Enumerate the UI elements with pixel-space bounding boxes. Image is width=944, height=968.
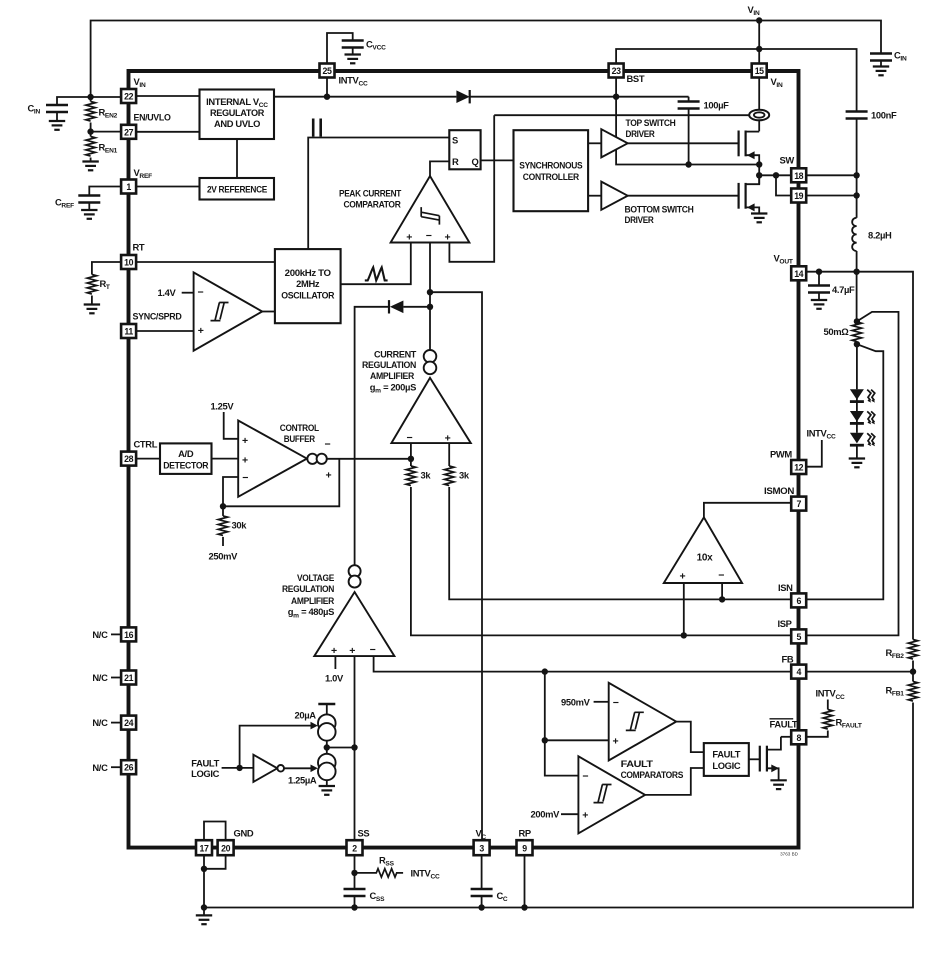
wire pin4 to divider — [806, 671, 913, 673]
svg-text:GND: GND — [234, 828, 254, 839]
wire pin25 to CVCC — [327, 33, 353, 64]
svg-text:AMPLIFIER: AMPLIFIER — [370, 370, 415, 381]
svg-text:+: + — [326, 470, 332, 482]
pin 1 VREF — [121, 180, 136, 194]
wire 3k left down to ISP — [411, 487, 791, 635]
svg-text:REGULATION: REGULATION — [282, 583, 335, 594]
svg-text:2: 2 — [352, 844, 357, 854]
ground 1.25uA — [319, 786, 335, 795]
wire SW to pin 19 — [776, 175, 791, 195]
ramp glyph — [365, 267, 388, 280]
node current sources SS — [324, 744, 330, 750]
ground RT — [84, 305, 100, 314]
wire led2-led3 — [856, 411, 858, 433]
current source current amp output — [424, 350, 437, 363]
wire 10x plus to ISP — [683, 583, 685, 635]
pin 8 FAULT — [791, 730, 806, 744]
wire ground rail — [204, 703, 913, 908]
op-amp 10x amplifier — [664, 517, 742, 583]
svg-text:COMPARATOR: COMPARATOR — [344, 199, 402, 210]
svg-text:21: 21 — [124, 673, 133, 683]
svg-text:5: 5 — [796, 632, 801, 642]
svg-text:CURRENT: CURRENT — [374, 349, 417, 360]
wire FB down to comparators — [545, 672, 579, 776]
wire 200mV to comp2 plus — [561, 813, 578, 815]
svg-text:AND UVLO: AND UVLO — [214, 118, 260, 129]
wire top driver to gate — [628, 142, 739, 144]
node FB divider — [910, 668, 916, 674]
svg-text:14: 14 — [794, 269, 803, 279]
svg-text:ISP: ISP — [778, 618, 792, 629]
svg-text:30k: 30k — [232, 520, 248, 531]
svg-text:4.7µF: 4.7µF — [832, 284, 855, 295]
wire pin22 to regulator — [136, 95, 199, 97]
wire N/C pin24 — [111, 722, 121, 724]
wire kelvin top to ISP — [806, 312, 898, 636]
wire 1.4V to sync comparator — [182, 292, 194, 294]
pin 10 RT — [121, 255, 136, 269]
transistor Q3 fault open-drain — [760, 737, 781, 780]
wire pin15 down to sense — [758, 78, 760, 110]
svg-text:23: 23 — [612, 66, 621, 76]
wire driver rail to sense — [494, 114, 749, 116]
pin 9 RP — [517, 840, 533, 855]
svg-text:11: 11 — [124, 327, 133, 337]
svg-text:15: 15 — [755, 66, 764, 76]
pin 24 N/C — [121, 716, 136, 730]
capacitor CREF — [78, 196, 100, 203]
node clamp diode junction — [427, 304, 433, 310]
wire oscillator to S input — [308, 138, 449, 250]
svg-text:100nF: 100nF — [871, 110, 897, 121]
node REN divider — [87, 128, 93, 134]
svg-text:12: 12 — [794, 463, 803, 473]
node VOUT inductor — [853, 269, 859, 275]
pin 3 VC — [474, 840, 490, 855]
supply tick 20uA — [326, 705, 328, 715]
op-amp fault comparator 2 — [578, 756, 645, 833]
pin 26 N/C — [121, 760, 136, 774]
svg-text:20µA: 20µA — [295, 710, 317, 721]
svg-text:1.25µA: 1.25µA — [288, 775, 317, 786]
svg-text:17: 17 — [200, 844, 209, 854]
resistor 30k — [222, 506, 224, 516]
wire VOUT line — [806, 272, 913, 640]
svg-text:27: 27 — [124, 127, 133, 137]
node RP ground — [521, 904, 527, 910]
wire controller to bottom driver — [588, 195, 601, 197]
wire N/C pin21 — [111, 677, 121, 679]
svg-text:ISMON: ISMON — [764, 485, 795, 496]
svg-text:FAULT: FAULT — [621, 758, 654, 769]
pin 12 PWM — [791, 460, 806, 474]
wire pin19 to SW rail — [806, 195, 856, 197]
ground CREF — [81, 210, 97, 219]
wire pin11 to sync comparator — [136, 330, 194, 332]
wire current amp minus to 3k — [410, 443, 412, 466]
wire pin10 to RT — [92, 262, 121, 275]
svg-text:A/D: A/D — [178, 448, 194, 459]
pin 7 ISMON — [791, 497, 806, 511]
IC boundary LT3763 — [129, 71, 799, 848]
block A/D detector — [160, 443, 212, 474]
svg-text:SYNCHRONOUS: SYNCHRONOUS — [519, 159, 582, 170]
ground CIN left — [49, 121, 65, 130]
svg-text:SW: SW — [780, 155, 795, 166]
pin 11 SYNC/SPRD — [121, 324, 136, 338]
wire 3k right down to ISN — [449, 487, 791, 599]
svg-text:BOTTOM SWITCH: BOTTOM SWITCH — [625, 203, 695, 214]
hysteresis glyph comp1 — [626, 712, 644, 730]
svg-text:50mΩ: 50mΩ — [824, 326, 850, 337]
svg-text:8.2µH: 8.2µH — [868, 230, 892, 241]
capacitor CVCC — [342, 41, 364, 48]
wire pin25 down to regulator output — [326, 78, 328, 97]
pin 20 GND — [218, 840, 234, 855]
wire N/C pin16 — [111, 633, 121, 635]
svg-text:1: 1 — [126, 182, 131, 192]
buffer bottom switch driver — [601, 182, 627, 210]
svg-text:2MHz: 2MHz — [296, 278, 320, 289]
svg-text:S: S — [452, 134, 458, 145]
wire pin12 INTVCC stub — [806, 440, 822, 467]
svg-text:VOLTAGE: VOLTAGE — [297, 572, 334, 583]
svg-text:PEAK CURRENT: PEAK CURRENT — [339, 188, 402, 199]
svg-text:16: 16 — [124, 630, 133, 640]
svg-text:LOGIC: LOGIC — [191, 768, 220, 779]
node fault comp1 plus — [542, 737, 548, 743]
wire pin8 to RFAULT — [806, 731, 828, 737]
svg-text:DETECTOR: DETECTOR — [163, 460, 209, 471]
wire led3 to ground — [856, 445, 858, 458]
svg-text:20: 20 — [221, 844, 230, 854]
wire pin27 to regulator — [136, 131, 199, 133]
svg-text:28: 28 — [124, 454, 133, 464]
svg-text:+: + — [613, 736, 619, 748]
svg-text:+: + — [242, 435, 248, 447]
wire voltage amp minus to FB — [374, 656, 792, 672]
current source voltage amp output — [349, 565, 361, 577]
svg-text:BST: BST — [627, 73, 645, 84]
svg-text:+: + — [680, 571, 686, 583]
svg-text:CONTROL: CONTROL — [280, 422, 320, 433]
current source 20uA — [318, 714, 336, 732]
wire Q to controller — [481, 159, 514, 161]
resistor RFB2 — [908, 640, 917, 660]
svg-text:22: 22 — [124, 92, 133, 102]
svg-text:6: 6 — [796, 596, 801, 606]
wire SW rail down — [856, 119, 858, 218]
pin 6 ISN — [791, 593, 806, 607]
node 10x plus ISP — [681, 632, 687, 638]
capacitor CC — [471, 889, 493, 896]
node INTVCC — [324, 94, 330, 100]
bracket GND pins 17-20 — [204, 822, 226, 841]
wire BST pin down and across to SW — [616, 78, 759, 165]
pin 23 BST — [609, 64, 624, 78]
resistor 3k left — [406, 466, 415, 486]
node SS line tap — [351, 744, 357, 750]
wire VC to pin 3 — [430, 292, 482, 840]
svg-text:R: R — [452, 156, 459, 167]
wire pin18 to SW rail — [806, 174, 856, 176]
node fault logic branch — [236, 765, 242, 771]
wire buffer output to current amp — [327, 458, 411, 460]
svg-text:1.0V: 1.0V — [325, 673, 344, 684]
wire buffer feedback loop — [223, 459, 339, 507]
pin 21 N/C — [121, 671, 136, 685]
block internal VCC regulator — [200, 90, 275, 140]
wire regulator to diode — [274, 96, 456, 98]
svg-text:−: − — [718, 569, 724, 581]
svg-text:19: 19 — [794, 191, 803, 201]
node SW pin19 branch — [773, 172, 779, 178]
wire 10x minus to ISN — [721, 583, 723, 599]
transistor Q1 top switch — [739, 131, 760, 165]
op-amp voltage regulation amplifier — [314, 592, 394, 656]
resistor REN2 — [90, 97, 92, 102]
pin 27 EN/UVLO — [121, 125, 136, 139]
svg-text:950mV: 950mV — [561, 696, 591, 707]
current source 1.25uA — [318, 754, 336, 772]
node comparator VC junction — [427, 289, 433, 295]
wire node to pin 22 — [91, 96, 122, 98]
wire comp1 output to fault logic — [676, 722, 704, 753]
svg-text:N/C: N/C — [92, 762, 108, 773]
wire to comp1 plus — [545, 739, 609, 741]
svg-text:3: 3 — [479, 844, 484, 854]
ground bottom FET source — [751, 214, 767, 223]
svg-text:+: + — [198, 325, 204, 337]
pin 5 ISP — [791, 629, 806, 643]
capacitor CSS — [344, 889, 366, 896]
svg-text:−: − — [198, 287, 204, 299]
current source control buffer output — [307, 454, 317, 464]
wire pin1 to reference — [136, 186, 199, 188]
svg-text:10x: 10x — [697, 553, 713, 564]
svg-text:200mV: 200mV — [531, 809, 561, 820]
node gnd pins join — [201, 866, 207, 872]
svg-text:N/C: N/C — [92, 717, 108, 728]
svg-text:25: 25 — [323, 66, 332, 76]
svg-text:Q: Q — [472, 156, 479, 167]
capacitor CIN right — [870, 54, 892, 61]
wire sense to LED string — [856, 344, 858, 389]
svg-text:2V REFERENCE: 2V REFERENCE — [207, 183, 267, 194]
wire 950mV to comp1 minus — [594, 701, 609, 703]
op-amp peak current comparator — [391, 176, 470, 243]
node SW rail 19 — [853, 192, 859, 198]
wire regulator to reference — [236, 139, 238, 178]
capacitor CIN (left) — [46, 105, 68, 112]
hysteresis glyph sync — [211, 303, 229, 321]
svg-text:+: + — [582, 809, 588, 821]
pin 18 SW — [791, 168, 806, 182]
capacitor 100uF bootstrap — [688, 97, 690, 102]
resistor RFAULT — [823, 710, 832, 730]
pin 4 FB — [791, 665, 806, 679]
node 10x minus ISN — [719, 596, 725, 602]
wire oscillator ramp to comparator — [341, 243, 411, 285]
svg-text:OSCILLATOR: OSCILLATOR — [281, 290, 335, 301]
wire SW vertical — [758, 165, 760, 185]
svg-text:LOGIC: LOGIC — [712, 760, 741, 771]
svg-text:8: 8 — [796, 733, 801, 743]
svg-text:PWM: PWM — [770, 449, 792, 460]
block oscillator — [275, 249, 341, 323]
buffer top switch driver — [601, 129, 627, 157]
svg-text:CTRL: CTRL — [134, 438, 158, 449]
resistor 3k right — [445, 466, 454, 486]
svg-text:+: + — [349, 645, 355, 657]
svg-text:TOP SWITCH: TOP SWITCH — [626, 117, 677, 128]
svg-text:−: − — [325, 439, 331, 451]
wire 1.0V stub — [334, 656, 336, 669]
svg-text:SYNC/SPRD: SYNC/SPRD — [133, 311, 183, 322]
svg-text:−: − — [426, 230, 432, 242]
wire VIN top rail — [91, 21, 881, 98]
hysteresis glyph comp2 — [594, 785, 612, 803]
wire sync comparator to oscillator — [262, 311, 275, 313]
svg-text:250mV: 250mV — [209, 551, 239, 562]
pin 16 N/C — [121, 627, 136, 641]
svg-text:3763 BD: 3763 BD — [780, 852, 799, 857]
wire pin17 to ground — [203, 855, 205, 907]
LED D2 — [850, 411, 875, 424]
svg-text:COMPARATORS: COMPARATORS — [621, 769, 684, 780]
svg-text:7: 7 — [796, 499, 801, 509]
svg-text:+: + — [242, 455, 248, 467]
node BST cap line crossing VIN — [756, 46, 762, 52]
svg-text:+: + — [331, 645, 337, 657]
op-amp sync comparator — [194, 272, 263, 350]
wire kelvin bottom to ISN — [806, 344, 883, 599]
svg-text:18: 18 — [794, 171, 803, 181]
node VIN rail / pin15 junction — [756, 17, 762, 23]
wire clamp diode to voltage amp — [355, 307, 389, 565]
node buffer output to 3k — [408, 456, 414, 462]
svg-text:FAULT: FAULT — [191, 758, 219, 769]
wire pin20 to ground — [204, 855, 226, 869]
pin 19 SW — [791, 189, 806, 203]
ground LED string — [849, 459, 865, 468]
wire 10x output to ISMON — [704, 503, 791, 518]
resistor RT — [87, 275, 96, 295]
inductor 8.2uH — [852, 218, 856, 251]
svg-text:REGULATOR: REGULATOR — [210, 107, 265, 118]
wire 20uA to SS — [326, 741, 328, 748]
block fault logic — [704, 743, 749, 776]
node CC ground — [478, 904, 484, 910]
wire pin1 to CREF — [89, 187, 121, 196]
node feedback 30k — [220, 503, 226, 509]
wire SW to pin 18 — [759, 174, 791, 176]
capacitor 4.7uF — [818, 272, 820, 286]
wire fault logic to FET gate — [749, 758, 760, 760]
svg-text:+: + — [445, 232, 451, 244]
wire SS input — [354, 656, 356, 840]
hysteresis glyph peak comparator — [421, 207, 439, 225]
wire comparator to R input — [430, 161, 449, 176]
resistor RSS — [355, 869, 404, 877]
wire comp2 output to fault logic — [645, 768, 704, 795]
wire inverter to 1.25uA arrow — [284, 767, 311, 769]
wire pin2 to SS network — [354, 855, 356, 889]
wire N/C pin26 — [111, 766, 121, 768]
capacitor 100nF — [846, 112, 868, 119]
svg-text:24: 24 — [124, 718, 133, 728]
svg-text:200kHz TO: 200kHz TO — [285, 267, 331, 278]
svg-text:BUFFER: BUFFER — [284, 433, 315, 444]
node SW top — [756, 161, 762, 167]
op-amp fault comparator 1 — [609, 683, 677, 761]
block synchronous controller — [514, 130, 589, 211]
svg-text:FB: FB — [782, 653, 794, 664]
svg-text:EN/UVLO: EN/UVLO — [134, 112, 171, 123]
wire pin9 to ground rail — [524, 855, 526, 907]
wire buffer minus input — [223, 477, 238, 506]
resistor 50mohm — [852, 322, 861, 342]
block 2V reference — [200, 178, 275, 200]
svg-text:CONTROLLER: CONTROLLER — [523, 171, 580, 182]
svg-text:ISN: ISN — [778, 582, 793, 593]
svg-text:−: − — [242, 472, 248, 484]
wire pin28 to A/D — [136, 458, 160, 460]
wire divider to pin 27 — [91, 131, 122, 133]
svg-text:−: − — [613, 697, 619, 709]
pin 25 INTVCC — [320, 64, 335, 78]
pin 2 SS — [347, 840, 363, 855]
node sense top — [854, 318, 860, 324]
svg-text:−: − — [370, 644, 376, 656]
wire 1.25uA to ground — [326, 780, 328, 785]
wire inductor to VOUT — [856, 251, 858, 272]
inverter fault — [253, 755, 277, 782]
svg-text:3k: 3k — [421, 470, 432, 481]
svg-text:FAULT: FAULT — [712, 749, 740, 760]
node 100uF bottom — [685, 161, 691, 167]
node VIN/REN2 junction — [87, 94, 93, 100]
wire CIN left lead — [57, 97, 91, 105]
svg-text:26: 26 — [124, 763, 133, 773]
slope cap marks — [312, 119, 315, 137]
ground REN1 — [82, 162, 98, 171]
svg-text:−: − — [582, 771, 588, 783]
svg-text:FAULT: FAULT — [770, 719, 798, 730]
svg-text:DRIVER: DRIVER — [625, 214, 654, 225]
node sense bottom — [854, 341, 860, 347]
ground 4.7uF — [811, 300, 827, 309]
wire diode to 100uF — [470, 96, 689, 98]
op-amp current regulation amplifier — [391, 378, 470, 443]
svg-text:9: 9 — [522, 844, 527, 854]
diode INTVCC to BST — [456, 90, 469, 103]
node SW rail 18 — [853, 172, 859, 178]
svg-text:N/C: N/C — [92, 629, 108, 640]
wire A/D to buffer — [212, 458, 239, 460]
wire pin15 to VIN rail — [758, 21, 760, 64]
svg-text:+: + — [406, 232, 412, 244]
svg-text:3k: 3k — [459, 470, 470, 481]
svg-text:REGULATION: REGULATION — [362, 359, 417, 370]
wire controller to top driver — [588, 142, 601, 144]
node BST junction — [613, 94, 619, 100]
node SW mid — [756, 172, 762, 178]
node VOUT 4.7uF — [816, 269, 822, 275]
svg-text:−: − — [407, 432, 413, 444]
pin 28 CTRL — [121, 452, 136, 466]
sense element (concentric ellipses) — [749, 110, 769, 121]
